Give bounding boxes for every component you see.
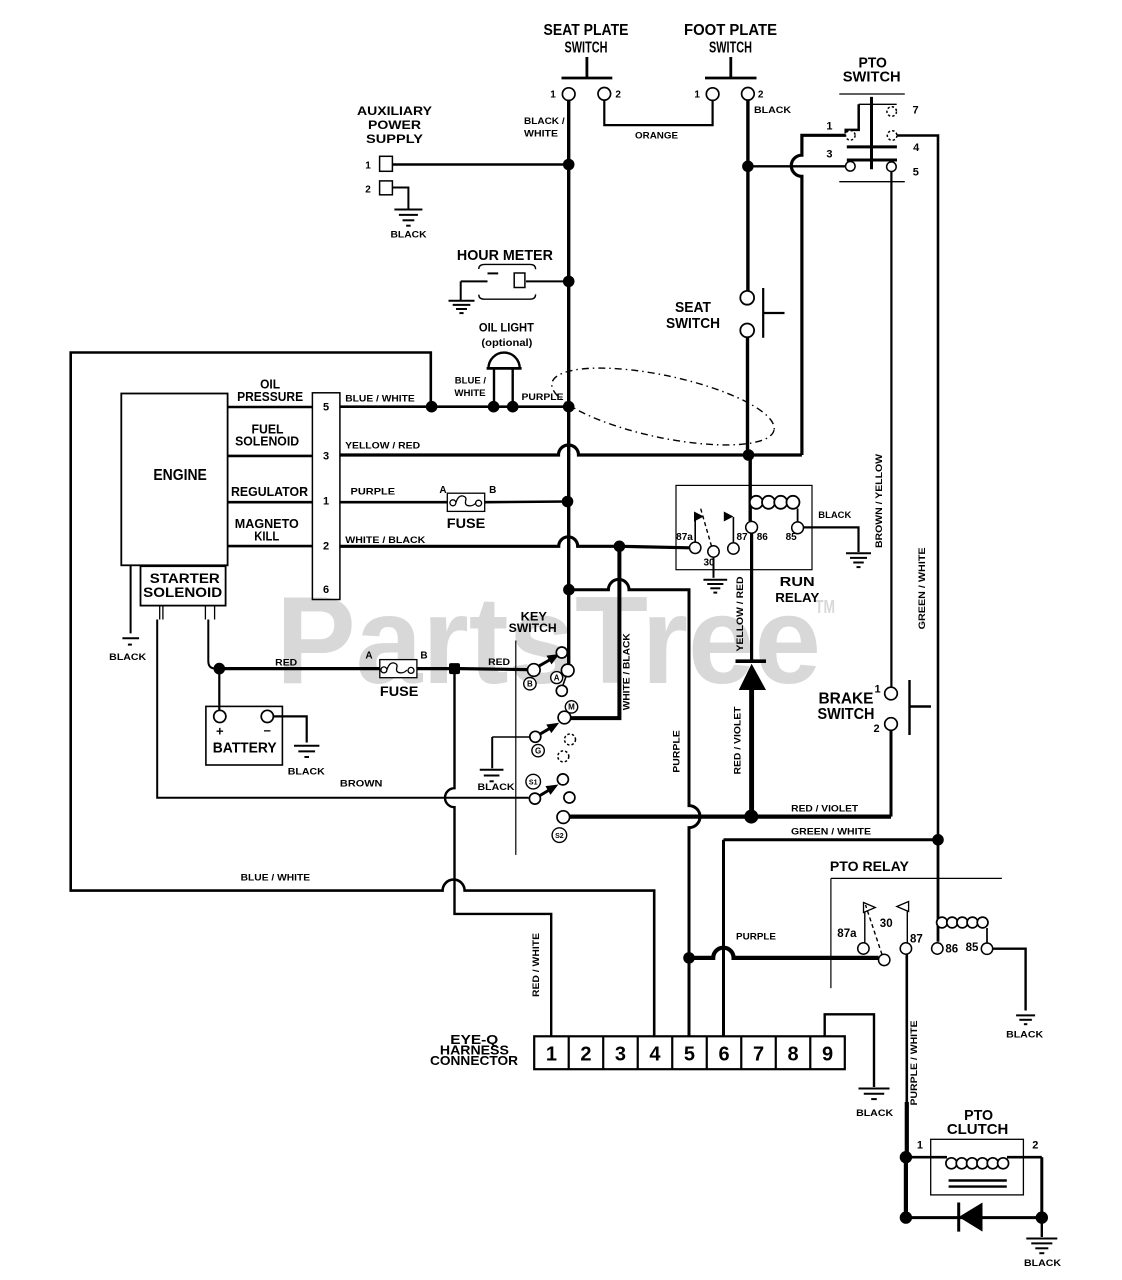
svg-text:POWER: POWER [368, 120, 422, 132]
svg-text:RED / VIOLET: RED / VIOLET [791, 804, 859, 814]
svg-text:RUN: RUN [780, 574, 815, 589]
svg-text:RED / WHITE: RED / WHITE [531, 933, 541, 997]
svg-text:SWITCH: SWITCH [666, 315, 720, 332]
svg-text:BLACK: BLACK [818, 510, 852, 520]
svg-text:A: A [439, 485, 446, 496]
svg-text:3: 3 [826, 148, 832, 160]
svg-text:B: B [420, 651, 427, 662]
svg-text:BLACK: BLACK [754, 105, 792, 115]
svg-text:86: 86 [945, 943, 958, 955]
svg-text:A: A [365, 651, 372, 662]
svg-text:YELLOW / RED: YELLOW / RED [345, 440, 421, 450]
svg-text:SEAT PLATE: SEAT PLATE [544, 22, 629, 39]
svg-text:BLACK: BLACK [109, 652, 147, 662]
svg-text:FOOT PLATE: FOOT PLATE [684, 22, 777, 39]
svg-text:1: 1 [323, 495, 329, 507]
svg-text:–: – [264, 723, 271, 738]
svg-text:30: 30 [880, 918, 893, 930]
svg-text:OIL LIGHT: OIL LIGHT [479, 321, 535, 334]
svg-text:REGULATOR: REGULATOR [231, 484, 309, 499]
svg-text:7: 7 [912, 105, 918, 117]
svg-text:30: 30 [703, 558, 715, 569]
svg-text:SWITCH: SWITCH [818, 706, 875, 723]
svg-text:5: 5 [913, 167, 919, 179]
svg-text:RED: RED [275, 658, 298, 668]
svg-text:SEAT: SEAT [675, 299, 711, 316]
svg-text:1: 1 [694, 90, 700, 101]
svg-text:WHITE / BLACK: WHITE / BLACK [345, 535, 426, 545]
svg-text:PURPLE: PURPLE [672, 730, 682, 773]
svg-text:+: + [216, 724, 224, 739]
svg-text:BLACK: BLACK [288, 767, 326, 777]
svg-text:BROWN / YELLOW: BROWN / YELLOW [874, 453, 884, 548]
svg-text:FUSE: FUSE [447, 515, 486, 531]
svg-text:BLACK: BLACK [478, 782, 516, 792]
svg-text:(optional): (optional) [481, 337, 532, 349]
svg-text:RED: RED [488, 657, 511, 667]
svg-text:BLACK /: BLACK / [524, 116, 565, 126]
svg-text:2: 2 [615, 90, 621, 101]
svg-text:FUSE: FUSE [380, 683, 419, 699]
svg-text:PRESSURE: PRESSURE [237, 389, 303, 404]
svg-text:BLACK: BLACK [1024, 1258, 1062, 1268]
svg-text:WHITE: WHITE [454, 388, 485, 398]
svg-text:3: 3 [323, 451, 329, 463]
svg-text:PURPLE: PURPLE [351, 487, 396, 497]
svg-text:PURPLE: PURPLE [736, 932, 776, 942]
svg-text:PTO RELAY: PTO RELAY [830, 858, 910, 874]
svg-text:B: B [527, 680, 533, 689]
svg-text:WHITE / BLACK: WHITE / BLACK [622, 633, 632, 711]
svg-text:B: B [489, 485, 496, 496]
svg-text:BLUE / WHITE: BLUE / WHITE [345, 394, 415, 404]
svg-text:2: 2 [580, 1044, 591, 1066]
svg-text:PURPLE: PURPLE [522, 392, 564, 402]
svg-text:AUXILIARY: AUXILIARY [357, 106, 432, 118]
svg-text:5: 5 [323, 402, 329, 414]
svg-text:6: 6 [718, 1044, 729, 1066]
svg-text:WHITE: WHITE [524, 129, 558, 139]
svg-text:A: A [554, 673, 560, 682]
svg-text:1: 1 [917, 1139, 923, 1151]
svg-text:S2: S2 [555, 833, 564, 840]
svg-text:87: 87 [910, 934, 923, 946]
svg-text:BRAKE: BRAKE [819, 691, 874, 708]
svg-text:M: M [568, 703, 575, 712]
svg-text:3: 3 [615, 1044, 626, 1066]
svg-text:CLUTCH: CLUTCH [947, 1121, 1009, 1138]
svg-text:1: 1 [546, 1044, 557, 1066]
svg-text:2: 2 [365, 185, 371, 196]
svg-text:SWITCH: SWITCH [709, 40, 752, 57]
svg-text:G: G [535, 746, 541, 755]
svg-text:CONNECTOR: CONNECTOR [430, 1053, 519, 1068]
svg-text:BLUE /: BLUE / [455, 376, 487, 386]
svg-text:1: 1 [550, 90, 556, 101]
svg-text:S1: S1 [529, 779, 538, 786]
svg-text:87a: 87a [837, 928, 857, 940]
svg-text:86: 86 [757, 532, 769, 543]
svg-text:KILL: KILL [254, 528, 279, 543]
svg-text:87a: 87a [676, 532, 693, 543]
svg-text:BLACK: BLACK [391, 230, 428, 240]
svg-text:BLACK: BLACK [856, 1108, 894, 1118]
svg-text:GREEN / WHITE: GREEN / WHITE [917, 547, 927, 629]
svg-text:SUPPLY: SUPPLY [366, 134, 423, 146]
svg-text:SWITCH: SWITCH [843, 69, 901, 86]
svg-text:PURPLE / WHITE: PURPLE / WHITE [909, 1021, 919, 1106]
svg-text:ENGINE: ENGINE [153, 467, 207, 484]
svg-text:YELLOW / RED: YELLOW / RED [735, 576, 745, 652]
svg-text:1: 1 [826, 120, 832, 132]
svg-text:7: 7 [753, 1044, 764, 1066]
svg-text:6: 6 [323, 584, 329, 596]
svg-text:STARTER: STARTER [150, 571, 220, 586]
svg-text:4: 4 [913, 142, 920, 154]
svg-text:85: 85 [966, 942, 979, 954]
svg-text:SWITCH: SWITCH [509, 621, 557, 635]
svg-text:BLACK: BLACK [1006, 1030, 1044, 1040]
svg-text:2: 2 [1032, 1139, 1038, 1151]
svg-text:ORANGE: ORANGE [635, 131, 678, 141]
svg-text:RELAY: RELAY [775, 590, 819, 605]
svg-text:SWITCH: SWITCH [565, 40, 608, 57]
svg-text:1: 1 [365, 161, 371, 172]
svg-text:2: 2 [758, 90, 764, 101]
svg-text:5: 5 [684, 1044, 695, 1066]
svg-text:4: 4 [649, 1044, 661, 1066]
svg-text:GREEN / WHITE: GREEN / WHITE [791, 826, 871, 836]
svg-text:8: 8 [787, 1044, 798, 1066]
svg-text:2: 2 [323, 541, 329, 553]
svg-text:9: 9 [822, 1044, 833, 1066]
svg-text:85: 85 [786, 532, 798, 543]
svg-text:BROWN: BROWN [340, 779, 383, 789]
svg-text:87: 87 [736, 532, 748, 543]
svg-text:RED / VIOLET: RED / VIOLET [733, 706, 743, 775]
svg-text:1: 1 [874, 684, 880, 696]
svg-text:SOLENOID: SOLENOID [143, 585, 222, 600]
svg-text:2: 2 [873, 723, 879, 735]
svg-text:BATTERY: BATTERY [213, 740, 277, 757]
svg-text:HOUR METER: HOUR METER [457, 247, 553, 264]
svg-text:SOLENOID: SOLENOID [235, 434, 299, 449]
svg-text:BLUE / WHITE: BLUE / WHITE [241, 873, 311, 883]
